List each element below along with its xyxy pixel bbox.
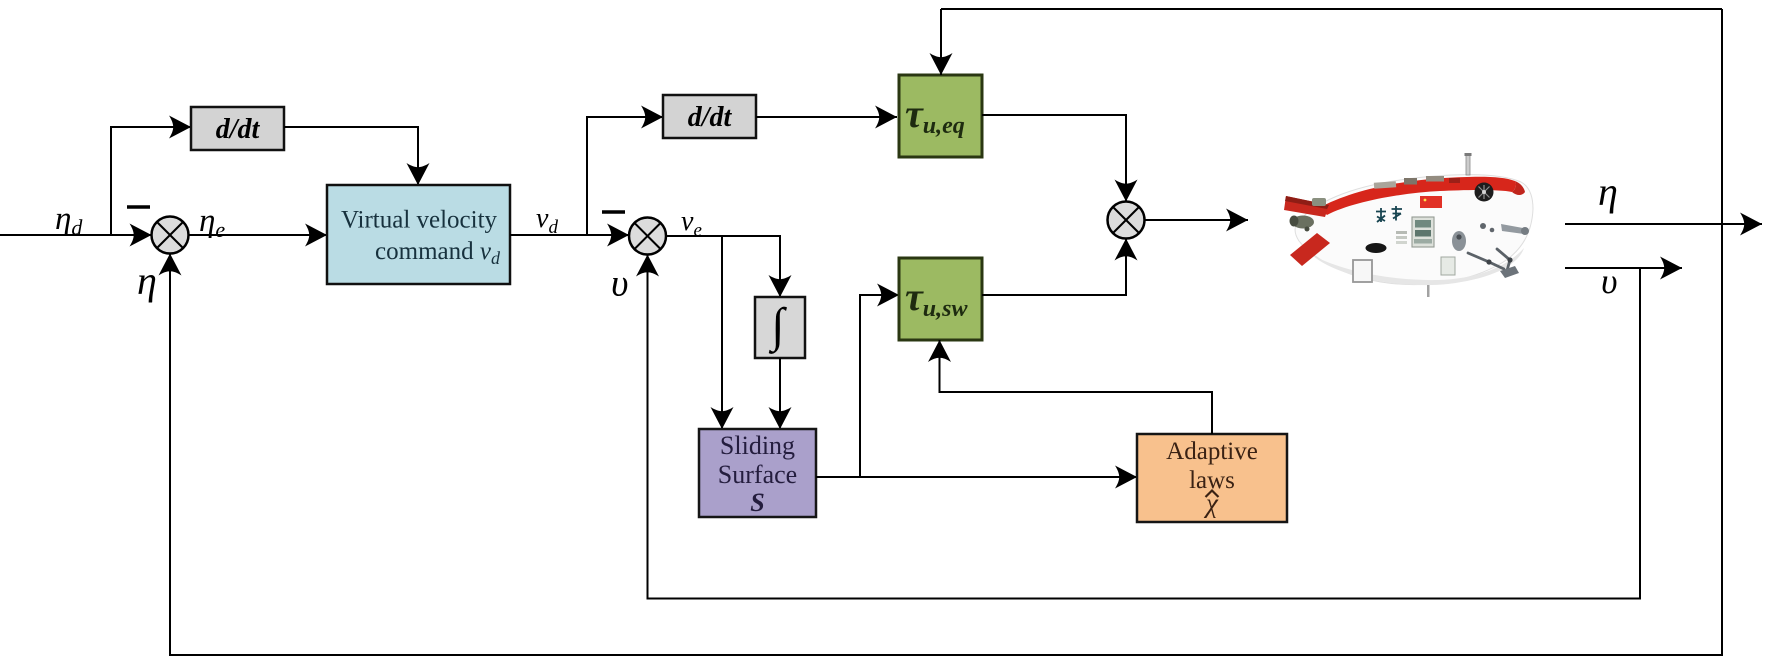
- minus sign junction1: [127, 205, 150, 209]
- upsilon output wire: [1565, 267, 1682, 269]
- nose red tip: [1512, 181, 1525, 195]
- skid ladder: [1353, 260, 1372, 282]
- block virtual velocity command: [327, 185, 510, 284]
- node branch to d/dt1: [111, 127, 191, 235]
- wire blue box to junction2: [510, 234, 629, 236]
- hull: [1295, 175, 1533, 285]
- svg-text:η: η: [137, 258, 157, 303]
- block tau_u_sw: [899, 258, 982, 340]
- svg-text:S: S: [750, 488, 764, 517]
- block adaptive laws: [1137, 434, 1287, 522]
- red dorsal band: [1319, 177, 1516, 215]
- hatch window: [1412, 217, 1434, 247]
- svg-text:∫: ∫: [768, 299, 787, 354]
- top feedback horizontal: [941, 8, 1722, 10]
- wire tau_sw to multiplier: [982, 239, 1126, 296]
- sail equipment top: [1374, 181, 1396, 189]
- svg-text:d/dt: d/dt: [688, 102, 733, 133]
- svg-text:υ: υ: [1601, 261, 1618, 301]
- minus sign junction2: [602, 210, 625, 214]
- porthole: [1366, 243, 1387, 253]
- wire integrator to sliding surface: [779, 358, 781, 429]
- summing junction 2: [629, 218, 666, 255]
- svg-text:command vd: command vd: [375, 238, 501, 268]
- wire d/dt2 to tau_eq: [756, 116, 897, 118]
- svg-text:υ: υ: [611, 263, 628, 305]
- summing junction 1: [152, 217, 189, 254]
- side stripes left of hatch: [1396, 231, 1407, 234]
- block d/dt 2: [663, 95, 756, 138]
- tail lower fin: [1290, 233, 1330, 266]
- svg-text:Surface: Surface: [718, 460, 797, 489]
- name characters: [1376, 206, 1402, 222]
- wire d/dt1 to blue box top: [284, 127, 418, 185]
- hull bottom shading: [1312, 248, 1524, 285]
- wire multiplier to AUV: [1145, 219, 1249, 221]
- wire junction1 to blue box: [189, 234, 328, 236]
- mast: [1466, 155, 1470, 175]
- bow equipment: [1452, 231, 1466, 251]
- upsilon feedback: [648, 255, 1641, 599]
- wire top into tau_eq: [940, 9, 942, 75]
- wire v_e to integrator: [666, 236, 780, 297]
- svg-text:d/dt: d/dt: [216, 114, 261, 145]
- wire input eta_d: [0, 234, 152, 236]
- node branch to d/dt2: [587, 117, 663, 235]
- svg-text:η: η: [1598, 169, 1618, 214]
- small dropper: [1427, 285, 1430, 297]
- block d/dt 1: [191, 107, 284, 150]
- flag: [1420, 196, 1442, 208]
- tail upper fin: [1284, 196, 1329, 217]
- wire branch up to tau_sw: [860, 295, 899, 477]
- propeller thruster: [1475, 183, 1494, 202]
- tail top equipment: [1312, 198, 1326, 206]
- wire tau_eq to multiplier: [982, 115, 1126, 202]
- multiplier junction: [1108, 202, 1145, 239]
- manipulator arms: [1468, 249, 1510, 274]
- svg-text:Virtual velocity: Virtual velocity: [341, 207, 498, 234]
- block tau_u_eq: [899, 75, 982, 157]
- wire adaptive laws up to tau_sw bottom: [940, 340, 1213, 434]
- svg-text:Sliding: Sliding: [720, 431, 795, 460]
- wire sliding out to adaptive laws: [816, 476, 1137, 478]
- eta output wire: [1565, 223, 1762, 225]
- svg-text:Adaptive: Adaptive: [1166, 438, 1258, 465]
- AUV vehicle drawing: [1284, 153, 1533, 297]
- wire branch to sliding surface left arrow: [721, 236, 723, 429]
- tail hub: [1292, 216, 1314, 229]
- block integrator: [755, 297, 805, 358]
- block sliding surface: [699, 429, 816, 517]
- tail upper fin dark edge: [1285, 196, 1329, 209]
